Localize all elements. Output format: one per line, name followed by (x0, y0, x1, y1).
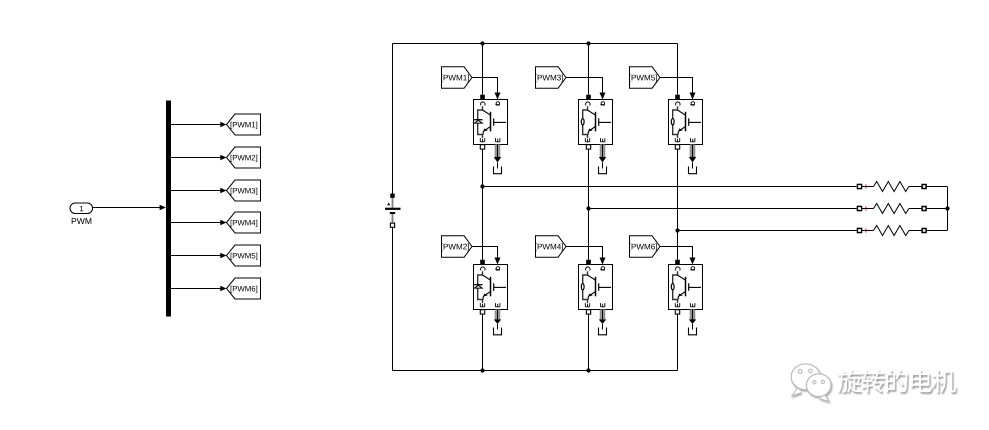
node: top bus junction col 1 (480, 41, 484, 45)
resistor RB (857, 204, 946, 214)
watermark wechat logo (791, 364, 831, 402)
DC voltage source (385, 194, 401, 228)
wire: gate PWM4 (566, 247, 603, 259)
port E (open) col 1 bottom (480, 310, 484, 314)
IGBT block upper 5 (669, 100, 703, 145)
terminator col 1 (top) (497, 163, 499, 169)
port C (filled) col 3 bottom (675, 260, 680, 265)
demux bar (166, 101, 171, 317)
port E (open) col 3 top (675, 145, 679, 149)
IGBT block upper 1 (474, 100, 508, 145)
terminator col 3 (bottom) (692, 324, 694, 330)
wire: demux out 2 (170, 157, 221, 159)
port E (open) col 1 top (480, 145, 484, 149)
from block PWM5 (630, 67, 661, 88)
from block PWM6 (630, 236, 661, 257)
goto block PWM5 (227, 245, 261, 266)
IGBT block lower 2 (474, 265, 508, 310)
wire: demux out 3 (170, 190, 221, 192)
port C (filled) col 2 bottom (586, 260, 591, 265)
wire: column 1 lower lead (482, 314, 484, 370)
wire: gate PWM1 (472, 78, 498, 94)
wire: column 1 upper C lead (482, 44, 484, 95)
terminator col 3 (top) (692, 163, 694, 169)
input port 1 (PWM) (70, 203, 93, 214)
port E (open) col 3 bottom (675, 310, 679, 314)
wire: column 2 lower lead (588, 314, 590, 370)
goto block PWM1 (227, 114, 261, 135)
goto block PWM2 (227, 147, 261, 168)
IGBT block upper 3 (579, 100, 613, 145)
watermark text (838, 369, 956, 392)
wire: phase C line (678, 230, 857, 232)
goto block PWM6 (227, 278, 261, 299)
wire: gate PWM2 (472, 247, 498, 259)
signal m out col 1 (top) (495, 145, 500, 158)
from block PWM3 (536, 67, 567, 88)
port E (open) col 2 bottom (586, 310, 590, 314)
IGBT block lower 6 (669, 265, 703, 310)
signal m out col 3 (top) (690, 145, 695, 158)
wire: column 3 upper C lead (677, 44, 679, 95)
wire: top DC bus (393, 43, 678, 45)
signal m out col 2 (bottom) (600, 310, 605, 320)
wire: inport to demux (93, 207, 161, 209)
wire: demux out 5 (170, 255, 221, 257)
wire: column 3 lower lead (677, 314, 679, 370)
wire: gate PWM6 (660, 247, 693, 259)
from block PWM2 (442, 236, 473, 257)
port C (filled) col 3 top (675, 95, 680, 100)
wire: demux out 4 (170, 222, 221, 224)
node: phase C junction (675, 228, 679, 232)
terminator col 2 (top) (602, 163, 604, 169)
port C (filled) col 2 top (586, 95, 591, 100)
node: bottom bus junction col 1 (480, 368, 484, 372)
node: top bus junction col 2 (586, 41, 590, 45)
wire: DC source positive lead (392, 44, 394, 194)
resistor RA (857, 182, 946, 192)
signal m out col 3 (bottom) (690, 310, 695, 320)
wire: neutral vertical (947, 187, 948, 231)
node: bottom bus junction col 2 (586, 368, 590, 372)
port C (filled) col 1 bottom (480, 260, 485, 265)
signal m out col 1 (bottom) (495, 310, 500, 320)
goto block PWM4 (227, 212, 261, 233)
wire: column 2 midpoint link (588, 149, 590, 259)
wire: phase B line (589, 208, 857, 210)
node: phase B junction (586, 206, 590, 210)
resistor RC (857, 226, 946, 236)
port E (open) col 2 top (586, 145, 590, 149)
wire: demux out 6 (170, 288, 221, 290)
from block PWM1 (442, 67, 473, 88)
wire: gate PWM3 (566, 78, 603, 94)
wire: demux out 1 (170, 124, 221, 126)
wire: DC source negative lead (392, 227, 394, 370)
wire: column 2 upper C lead (588, 44, 590, 95)
IGBT block lower 4 (579, 265, 613, 310)
node: phase A junction (480, 184, 484, 188)
wire: column 1 midpoint link (482, 149, 484, 259)
signal m out col 2 (top) (600, 145, 605, 158)
from block PWM4 (536, 236, 567, 257)
terminator col 2 (bottom) (602, 324, 604, 330)
wire: gate PWM5 (660, 78, 693, 94)
goto block PWM3 (227, 180, 261, 201)
wire: column 3 midpoint link (677, 149, 679, 259)
node: neutral junction (945, 206, 949, 210)
port C (filled) col 1 top (480, 95, 485, 100)
terminator col 1 (bottom) (497, 324, 499, 330)
wire: phase A line (483, 186, 857, 188)
wire: bottom DC bus (393, 370, 678, 372)
